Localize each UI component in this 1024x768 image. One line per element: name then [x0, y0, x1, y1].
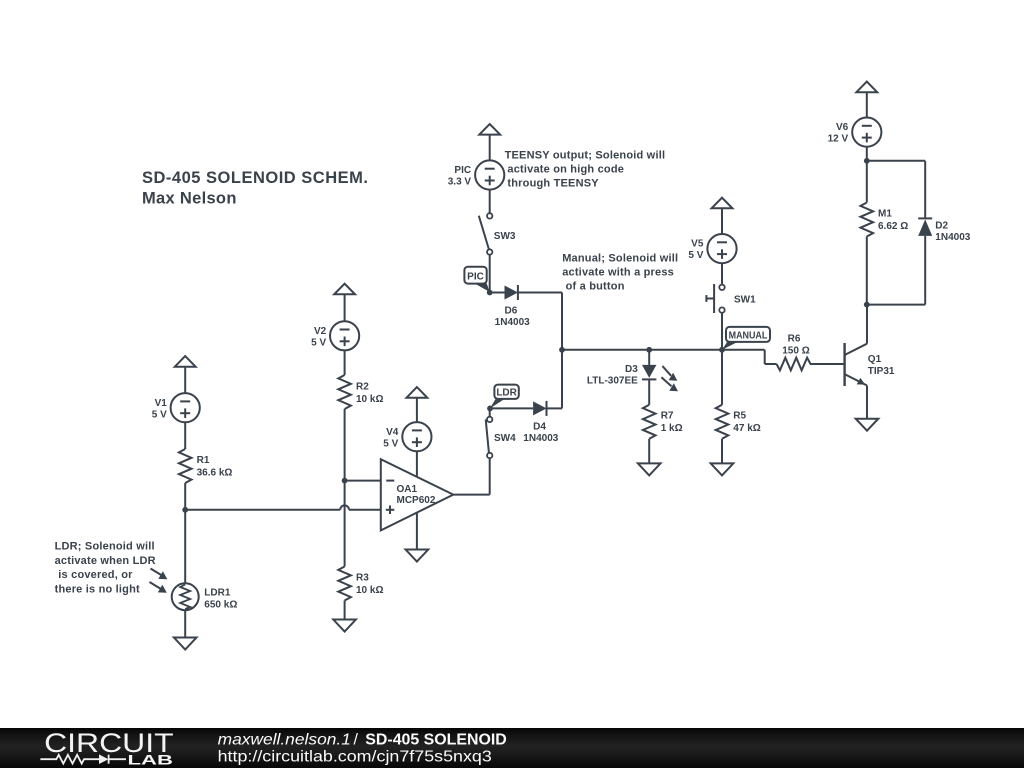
wire emitter — [866, 386, 868, 419]
wire — [648, 379, 650, 404]
wire — [721, 263, 723, 285]
wire — [344, 409, 346, 567]
resistor R1 — [179, 449, 233, 483]
wire collector — [866, 305, 868, 344]
resistor R2 — [338, 375, 383, 409]
ground under op-amp — [406, 550, 429, 562]
wire — [489, 255, 491, 293]
wire — [489, 190, 491, 214]
wire D2 loop top — [867, 161, 925, 219]
ground under Q1 — [856, 419, 879, 431]
power VCC arrow for V1 — [175, 356, 196, 367]
wire — [722, 350, 777, 364]
voltage source V2 — [311, 321, 359, 350]
node junction LED branch — [646, 347, 652, 353]
wire — [184, 483, 186, 583]
title text — [142, 169, 368, 208]
ground under LDR1 — [174, 638, 197, 650]
wire op-amp V- supply — [416, 513, 418, 550]
node junction R1/LDR1/op-amp — [182, 507, 188, 513]
LED D3 — [587, 364, 678, 391]
diode D4 — [523, 401, 558, 444]
node junction MANUAL — [719, 347, 725, 353]
wire — [866, 93, 868, 118]
resistor R5 — [716, 405, 761, 439]
ground under R5 — [711, 463, 734, 475]
svg-text:SD-405 SOLENOID: SD-405 SOLENOID — [365, 732, 507, 749]
resistor R6 — [777, 333, 811, 370]
wire — [184, 422, 186, 449]
LDR1 arrows — [150, 569, 168, 593]
svg-text:http://circuitlab.com/cjn7f75s: http://circuitlab.com/cjn7f75s5nxq3 — [218, 749, 492, 766]
resistor R7 — [643, 405, 683, 439]
ground under R7 — [638, 463, 661, 475]
wire — [489, 408, 491, 416]
flag MANUAL — [722, 327, 770, 350]
wire op-amp V+ supply — [416, 451, 418, 477]
wire — [810, 363, 845, 365]
voltage source V5 — [688, 234, 736, 263]
node junction R2/R3/op-amp minus — [342, 478, 348, 484]
wire — [489, 135, 491, 160]
note: TEENSY output — [505, 150, 666, 190]
footer bar — [0, 728, 1024, 768]
wire — [490, 292, 505, 294]
note: LDR — [55, 541, 156, 596]
op-amp OA1 — [381, 459, 454, 530]
wire — [648, 439, 650, 464]
wire — [490, 407, 533, 409]
node junction M1/D2/collector — [864, 302, 870, 308]
power VCC arrow for V4 — [407, 387, 428, 398]
power VCC arrow for V2 — [334, 284, 355, 295]
node junction PIC/D6 — [487, 290, 493, 296]
wire — [344, 295, 346, 322]
flag PIC — [464, 267, 489, 292]
svg-text:/: / — [354, 732, 359, 749]
flag LDR — [490, 385, 519, 409]
wire — [866, 237, 868, 305]
wire to op-amp + input with hop — [185, 505, 381, 509]
voltage source V1 — [152, 393, 200, 422]
wire D2 loop bottom — [867, 236, 925, 305]
wire — [344, 350, 346, 375]
wire — [648, 350, 650, 365]
power VCC arrow for V6 — [856, 82, 877, 93]
wire — [866, 161, 868, 203]
power VCC arrow for V5 — [712, 198, 733, 209]
wire to op-amp - input — [345, 480, 381, 482]
logo resistor-diode graphic — [40, 755, 126, 764]
wire — [344, 601, 346, 620]
wire — [547, 407, 563, 409]
switch SW3 — [479, 213, 516, 255]
wire — [518, 293, 562, 409]
voltage source V4 — [383, 422, 431, 451]
wire op-amp output — [453, 458, 489, 494]
logo diode triangle — [99, 754, 108, 764]
node junction V6/M1/D2 — [864, 158, 870, 164]
wire — [721, 313, 723, 350]
pushbutton SW1 — [706, 284, 756, 313]
note: Manual button — [562, 253, 678, 293]
wire — [721, 209, 723, 235]
svg-text:maxwell.nelson.1: maxwell.nelson.1 — [218, 732, 351, 749]
wire — [184, 367, 186, 393]
node junction D6/D4 — [559, 347, 565, 353]
wire main node — [562, 349, 722, 351]
ground under R3 — [333, 620, 356, 632]
photoresistor LDR1 — [172, 583, 238, 610]
transistor Q1 — [845, 343, 895, 386]
svg-text:LAB: LAB — [128, 752, 173, 768]
power VCC arrow for PIC source — [479, 124, 500, 135]
wire — [866, 147, 868, 161]
solenoid M1 (resistor symbol) — [861, 203, 909, 237]
resistor R3 — [338, 567, 383, 601]
wire — [721, 350, 723, 405]
wire — [416, 398, 418, 422]
voltage source V6 — [828, 118, 882, 147]
diode D2 — [918, 218, 971, 242]
wire — [184, 610, 186, 637]
diode D6 — [495, 285, 530, 328]
switch SW4 — [486, 417, 516, 459]
node junction LDR/D4/SW4 — [487, 406, 493, 412]
wire — [721, 439, 723, 464]
voltage source PIC 3.3V — [448, 160, 505, 189]
